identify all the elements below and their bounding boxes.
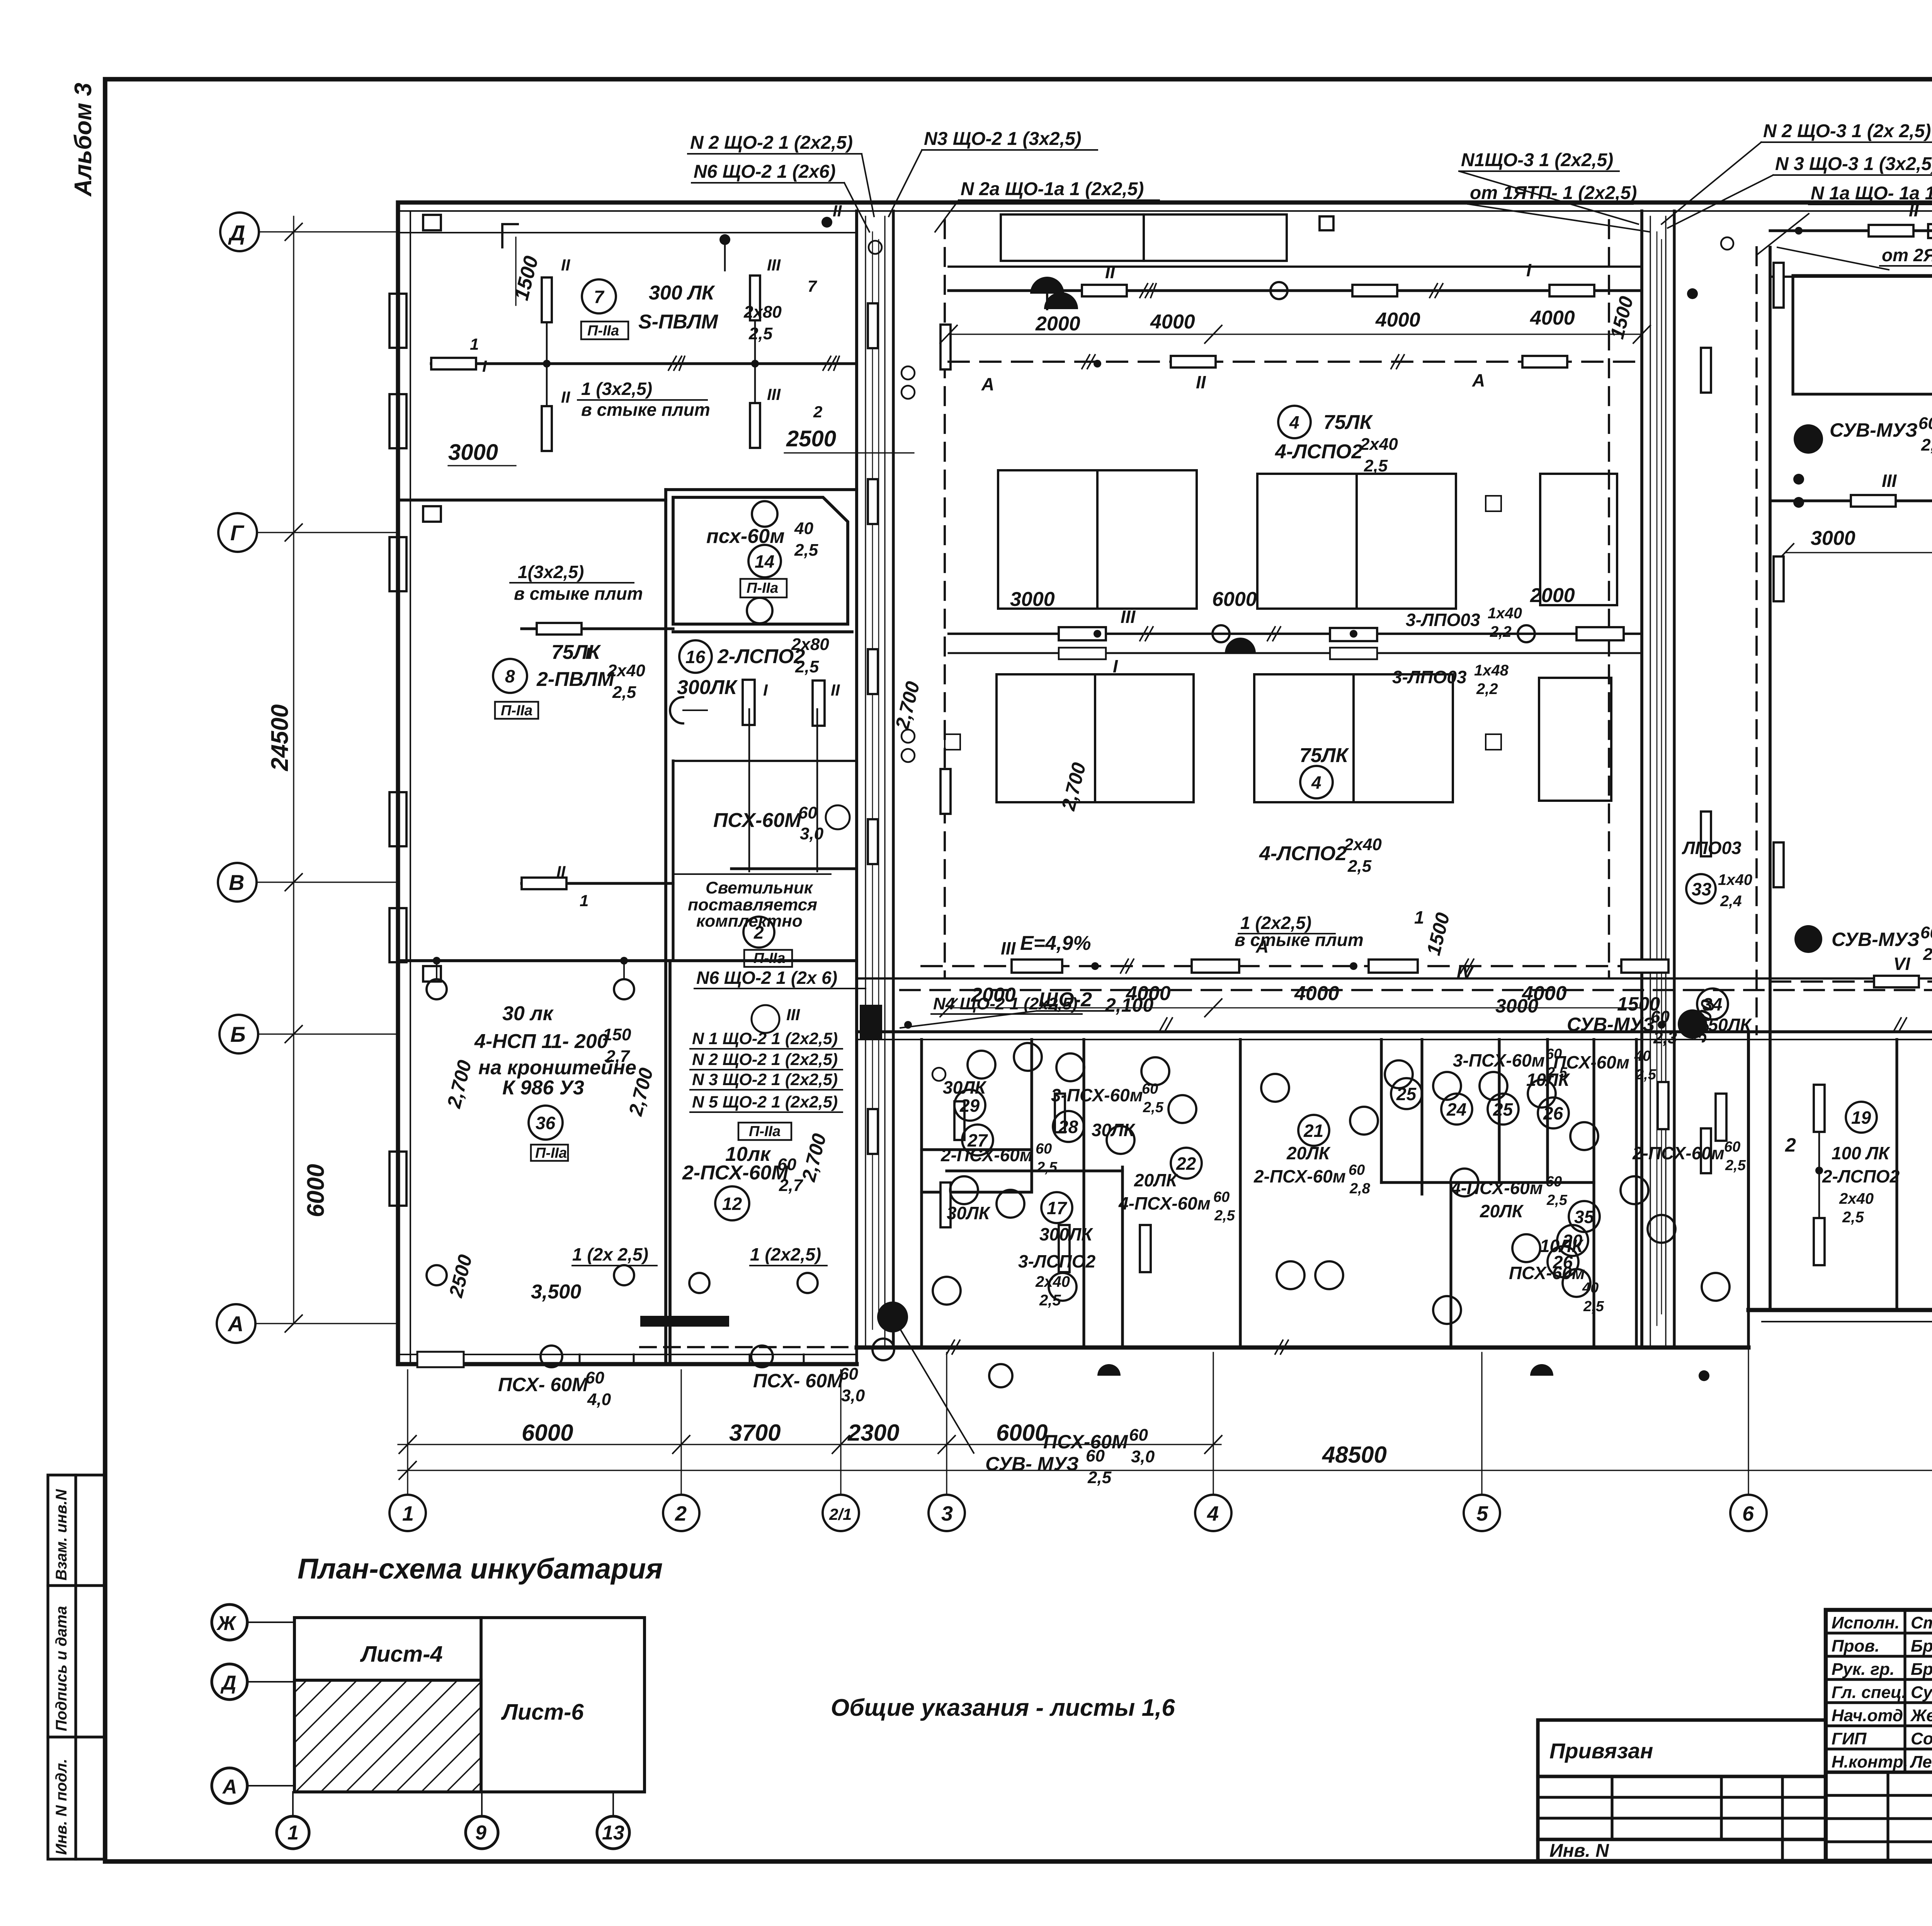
svg-text:Соколовский: Соколовский — [1911, 1729, 1932, 1748]
svg-text:40: 40 — [1634, 1048, 1651, 1064]
svg-text:3,0: 3,0 — [841, 1386, 865, 1405]
svg-text:Инв. N: Инв. N — [1549, 1841, 1609, 1861]
svg-text:П-IIа: П-IIа — [587, 323, 619, 339]
svg-text:ЛПО03: ЛПО03 — [1682, 838, 1742, 858]
svg-text:33: 33 — [1692, 879, 1712, 899]
corridor wiring dashed — [900, 989, 1932, 991]
partition vertical left block — [664, 490, 667, 1364]
svg-text:комплектно: комплектно — [696, 912, 803, 931]
svg-text:2,2: 2,2 — [1476, 681, 1498, 698]
svg-text:2,3: 2,3 — [1653, 1028, 1677, 1047]
svg-text:2: 2 — [675, 1502, 687, 1525]
svg-text:1х48: 1х48 — [1474, 662, 1509, 679]
svg-text:12: 12 — [722, 1194, 742, 1214]
svg-text:2,5: 2,5 — [1842, 1209, 1864, 1226]
axis bubble G — [218, 513, 257, 552]
svg-text:ПСХ-60м: ПСХ-60м — [1553, 1052, 1629, 1072]
corridor 2 luminaires — [1701, 263, 1784, 1173]
svg-text:2000: 2000 — [1530, 584, 1575, 607]
svg-text:60: 60 — [839, 1365, 858, 1383]
svg-text:III: III — [1121, 607, 1136, 627]
svg-text:N6 ЩО-2 1 (2х 6): N6 ЩО-2 1 (2х 6) — [696, 968, 837, 988]
bottom band wall at axis 6 — [1747, 1034, 1750, 1310]
key plan axis bubbles — [212, 1604, 629, 1849]
svg-text:СУВ- МУЗ: СУВ- МУЗ — [985, 1453, 1079, 1475]
svg-text:20ЛК: 20ЛК — [1134, 1170, 1178, 1190]
lamps bottom band (small rooms) — [933, 1043, 1730, 1324]
stamp column texts — [53, 1489, 70, 1855]
svg-text:60: 60 — [1349, 1162, 1365, 1178]
svg-text:40: 40 — [1582, 1280, 1599, 1296]
svg-text:2500: 2500 — [786, 426, 836, 451]
svg-text:3000: 3000 — [1495, 995, 1538, 1017]
svg-text:1(3х2,5): 1(3х2,5) — [518, 562, 584, 582]
svg-text:6000: 6000 — [522, 1420, 573, 1446]
svg-text:В: В — [229, 870, 244, 895]
black semicircle lamps — [1030, 277, 1064, 294]
big rooms right hall — [1793, 276, 1932, 394]
corridor 1 verticals — [857, 211, 893, 1348]
svg-text:II: II — [1105, 262, 1116, 282]
svg-text:36: 36 — [536, 1113, 556, 1133]
svg-text:2,5: 2,5 — [1635, 1067, 1656, 1083]
wire group room 8/16 — [522, 627, 673, 630]
svg-text:2,8: 2,8 — [1349, 1181, 1371, 1197]
svg-text:I: I — [482, 357, 487, 375]
svg-text:1: 1 — [287, 1822, 299, 1844]
luminaire II lower — [542, 406, 552, 451]
group III wire right hall — [1770, 499, 1932, 502]
svg-text:60: 60 — [798, 803, 817, 822]
bottom dimension row 1 — [398, 1444, 1221, 1445]
svg-text:4000: 4000 — [1530, 307, 1575, 329]
bottom axis bubbles — [389, 1495, 1932, 1531]
svg-text:4-ПСХ-60м: 4-ПСХ-60м — [1451, 1178, 1543, 1198]
svg-text:2,100: 2,100 — [1105, 994, 1153, 1016]
SUV-MUZ labels — [985, 414, 1932, 1487]
luminaire III room7 — [750, 276, 760, 320]
bottom wall central — [857, 1346, 1748, 1350]
svg-text:II: II — [556, 863, 566, 881]
svg-text:N6 ЩО-2 1 (2х6): N6 ЩО-2 1 (2х6) — [694, 162, 836, 182]
svg-text:17: 17 — [1047, 1198, 1068, 1218]
riser dashed line corridor 1 — [944, 220, 946, 978]
ShchO-2 panel black — [860, 1005, 882, 1040]
hall mid wire — [949, 633, 1642, 635]
svg-text:ПСХ-60М: ПСХ-60М — [713, 809, 802, 832]
dashed wire top — [949, 361, 1642, 363]
svg-text:2х80: 2х80 — [743, 303, 782, 322]
luminaire III lower — [750, 403, 760, 448]
underline leaders — [578, 399, 707, 401]
building outer top wall — [398, 202, 1932, 1364]
svg-text:1 (3х2,5): 1 (3х2,5) — [581, 379, 652, 399]
left stamp column — [48, 1475, 105, 1859]
svg-text:16: 16 — [685, 647, 706, 667]
left outer wall — [396, 202, 400, 1364]
group I labels row 1 — [981, 260, 1532, 982]
svg-text:2,5: 2,5 — [794, 541, 818, 560]
top band rooms central — [1001, 214, 1932, 261]
svg-text:19: 19 — [1851, 1108, 1871, 1128]
dim 1500 tick line — [515, 237, 516, 305]
svg-text:40: 40 — [794, 519, 813, 538]
axis bubble V — [218, 863, 257, 902]
svg-text:1: 1 — [402, 1502, 414, 1525]
top wire right — [1770, 229, 1932, 232]
east-west corridor walls — [857, 978, 1932, 1040]
leader slant lines — [844, 142, 1932, 270]
central hall right wall / corridor 2 — [1642, 211, 1674, 1348]
svg-text:2: 2 — [813, 403, 822, 421]
svg-text:75ЛК: 75ЛК — [1299, 744, 1349, 767]
svg-text:29: 29 — [959, 1096, 980, 1116]
svg-text:4-НСП 11- 200: 4-НСП 11- 200 — [474, 1030, 608, 1053]
corridor2 small bells — [1687, 237, 1804, 508]
svg-text:13: 13 — [602, 1822, 624, 1844]
svg-text:2,5: 2,5 — [1087, 1468, 1112, 1487]
svg-text:П-IIа: П-IIа — [749, 1123, 781, 1140]
axis bubble B — [219, 1015, 258, 1053]
svg-text:III: III — [1882, 471, 1897, 491]
svg-text:от 1ЯТП- 1 (2х2,5): от 1ЯТП- 1 (2х2,5) — [1470, 183, 1637, 203]
luminaire II room7 — [542, 277, 552, 322]
svg-text:150: 150 — [603, 1025, 631, 1044]
svg-text:2,5: 2,5 — [1347, 857, 1372, 876]
switch symbols top-left room — [502, 224, 518, 247]
svg-text:35: 35 — [1574, 1207, 1595, 1227]
svg-text:ЩО-2: ЩО-2 — [1039, 989, 1092, 1011]
axis bubble A — [217, 1304, 255, 1343]
svg-text:3-ЛПО03: 3-ЛПО03 — [1392, 667, 1467, 687]
svg-text:48500: 48500 — [1322, 1442, 1387, 1468]
lamps below bottom wall — [541, 1339, 894, 1367]
A-strip jambs — [417, 1352, 804, 1367]
svg-text:III: III — [786, 1006, 800, 1024]
svg-text:3-ПСХ-60м: 3-ПСХ-60м — [1453, 1050, 1545, 1070]
svg-text:1: 1 — [580, 892, 588, 910]
room 36 lamps — [427, 961, 634, 1285]
bubble stems — [408, 1329, 1932, 1495]
wire group room 7 — [431, 362, 857, 365]
svg-text:Исполн.: Исполн. — [1832, 1613, 1900, 1632]
svg-text:2х40: 2х40 — [1035, 1273, 1070, 1290]
lobby walls — [731, 867, 857, 870]
svg-text:ПСХ- 60М: ПСХ- 60М — [753, 1370, 844, 1392]
central top band partition — [949, 265, 1642, 268]
svg-text:26: 26 — [1543, 1103, 1563, 1123]
svg-text:3,0: 3,0 — [1131, 1447, 1155, 1466]
svg-text:3,500: 3,500 — [531, 1281, 581, 1303]
axis D — [217, 213, 398, 1343]
riser dashed corridor 2 left — [1608, 220, 1610, 978]
bottom wall right — [1748, 1308, 1932, 1312]
svg-text:N 2 ЩО-2 1 (2х2,5): N 2 ЩО-2 1 (2х2,5) — [692, 1050, 838, 1069]
svg-text:А: А — [222, 1776, 237, 1798]
svg-text:6: 6 — [1742, 1502, 1754, 1525]
svg-text:N 1а ЩО- 1а 1 (2х2,5): N 1а ЩО- 1а 1 (2х2,5) — [1811, 183, 1932, 204]
svg-text:3000: 3000 — [448, 440, 498, 465]
svg-text:2х80: 2х80 — [791, 635, 829, 654]
svg-text:2,2: 2,2 — [1490, 623, 1512, 640]
axis ticks on 24500 line — [285, 223, 302, 1332]
svg-text:2,5: 2,5 — [612, 683, 636, 702]
svg-text:2-ПСХ-60м: 2-ПСХ-60м — [1632, 1143, 1725, 1163]
svg-text:7: 7 — [808, 277, 817, 295]
room36 texts — [474, 1002, 821, 1303]
luminaire bracket room7 — [431, 358, 476, 369]
svg-text:Взам. инв.N: Взам. инв.N — [53, 1489, 70, 1581]
svg-text:4: 4 — [1289, 412, 1299, 432]
dims texts left block — [448, 426, 836, 465]
svg-text:25: 25 — [1396, 1084, 1417, 1104]
svg-text:К 986 У3: К 986 У3 — [502, 1077, 584, 1099]
svg-text:2х40: 2х40 — [1344, 835, 1382, 854]
svg-text:1х40: 1х40 — [1718, 871, 1752, 888]
svg-text:N 3 ЩО-3 1 (3х2,5): N 3 ЩО-3 1 (3х2,5) — [1775, 154, 1932, 174]
svg-text:60: 60 — [1918, 414, 1932, 433]
svg-text:6000: 6000 — [996, 1420, 1048, 1446]
svg-text:60: 60 — [1036, 1141, 1052, 1157]
svg-text:14: 14 — [755, 551, 774, 572]
svg-text:60: 60 — [1724, 1139, 1740, 1155]
SUV-MUZ black circles — [1794, 424, 1823, 454]
svg-text:Подпись и дата: Подпись и дата — [53, 1606, 70, 1731]
svg-text:псх-60м: псх-60м — [706, 525, 785, 548]
left axis dim line — [293, 216, 294, 1324]
svg-text:План-схема инкубатария: План-схема инкубатария — [298, 1553, 663, 1585]
svg-text:N 1 ЩО-2 1 (2х2,5): N 1 ЩО-2 1 (2х2,5) — [692, 1029, 838, 1048]
svg-text:N 2 ЩО-3 1 (2х 2,5): N 2 ЩО-3 1 (2х 2,5) — [1763, 121, 1931, 141]
svg-text:30ЛК: 30ЛК — [947, 1203, 991, 1223]
svg-text:S-ПВЛМ: S-ПВЛМ — [638, 311, 719, 333]
svg-text:22: 22 — [1176, 1154, 1196, 1174]
svg-text:ПСХ- 60М: ПСХ- 60М — [498, 1374, 588, 1395]
divider 36/12 — [668, 961, 672, 1364]
svg-text:N 3 ЩО-2 1 (2х2,5): N 3 ЩО-2 1 (2х2,5) — [692, 1070, 838, 1089]
svg-text:Ж: Ж — [216, 1612, 237, 1635]
svg-text:2,5: 2,5 — [795, 657, 819, 676]
svg-text:Лебская: Лебская — [1910, 1752, 1932, 1771]
svg-text:2,5: 2,5 — [748, 324, 773, 343]
svg-text:ПСХ-60М: ПСХ-60М — [1043, 1431, 1128, 1453]
left block internal walls — [398, 490, 857, 1364]
svg-text:60: 60 — [1546, 1174, 1562, 1190]
svg-text:75ЛК: 75ЛК — [551, 641, 601, 664]
svg-text:300 ЛК: 300 ЛК — [649, 282, 715, 304]
PSХ labels below — [498, 1365, 1155, 1466]
svg-text:II: II — [831, 681, 840, 699]
svg-text:60: 60 — [1129, 1426, 1148, 1444]
svg-text:30 лк: 30 лк — [502, 1002, 554, 1025]
dashed wire below A — [640, 1346, 920, 1348]
svg-text:24500: 24500 — [267, 704, 293, 771]
svg-text:А: А — [981, 374, 994, 394]
svg-text:2х40: 2х40 — [1360, 435, 1398, 454]
svetilnik note — [688, 878, 817, 931]
svg-text:2/1: 2/1 — [829, 1505, 852, 1523]
svg-text:Г: Г — [230, 521, 245, 545]
svg-text:N 5 ЩО-2 1 (2х2,5): N 5 ЩО-2 1 (2х2,5) — [692, 1093, 838, 1111]
luminaires room16 — [743, 680, 755, 725]
svg-text:2-ПСХ-60м: 2-ПСХ-60м — [940, 1145, 1033, 1165]
bottom room band partitions — [922, 1040, 1932, 1348]
svg-text:2,5: 2,5 — [1364, 456, 1388, 475]
room16 bell — [670, 697, 683, 723]
svg-text:2,5: 2,5 — [1583, 1298, 1604, 1315]
svg-text:N3 ЩО-2 1 (3х2,5): N3 ЩО-2 1 (3х2,5) — [924, 129, 1082, 149]
svg-text:60: 60 — [585, 1368, 604, 1387]
svg-text:I: I — [763, 681, 768, 699]
svg-text:3-ЛСПО2: 3-ЛСПО2 — [1018, 1251, 1096, 1271]
svg-text:Жевнеров: Жевнеров — [1910, 1706, 1932, 1725]
dashed wire bottom right hall — [1770, 980, 1932, 983]
svg-text:3-ПСХ-60м: 3-ПСХ-60м — [1051, 1085, 1143, 1105]
small squares between rects — [1486, 496, 1501, 511]
svg-text:2х40: 2х40 — [607, 661, 645, 680]
svg-text:2,5: 2,5 — [1921, 436, 1932, 454]
room 12 lamps — [689, 1273, 818, 1293]
svg-text:ГИП: ГИП — [1832, 1729, 1867, 1748]
lamp stem — [546, 322, 548, 406]
top band wire — [949, 289, 1642, 292]
lamp dots room7 top — [719, 234, 730, 245]
svg-text:ПСХ-60м: ПСХ-60м — [1509, 1263, 1585, 1283]
wire axis B — [522, 882, 673, 885]
wire slashes — [668, 356, 839, 370]
svg-text:1х40: 1х40 — [1488, 605, 1522, 622]
svg-text:24: 24 — [1446, 1099, 1466, 1120]
svg-text:N1ЩО-3 1 (2х2,5): N1ЩО-3 1 (2х2,5) — [1461, 150, 1613, 170]
svg-text:Светильник: Светильник — [706, 878, 814, 897]
svg-text:3000: 3000 — [1811, 527, 1855, 550]
svg-text:2,4: 2,4 — [1720, 893, 1742, 910]
svg-text:I: I — [1526, 260, 1532, 280]
svg-text:2-ПСХ-60м: 2-ПСХ-60м — [1253, 1166, 1346, 1186]
svg-text:1: 1 — [470, 335, 479, 353]
luminaires room17 area — [954, 1082, 1726, 1272]
svg-text:60: 60 — [1213, 1189, 1230, 1205]
svg-text:1: 1 — [1414, 907, 1424, 927]
svg-text:СУВ-МУЗ: СУВ-МУЗ — [1567, 1014, 1655, 1035]
svg-text:3-ЛПО03: 3-ЛПО03 — [1406, 610, 1480, 630]
svg-text:75ЛК: 75ЛК — [1323, 411, 1373, 434]
dim line right hall — [1785, 552, 1932, 553]
svg-text:П-IIа: П-IIа — [501, 703, 532, 719]
svg-text:4-ЛСПО2: 4-ЛСПО2 — [1259, 842, 1347, 865]
P-IIa boxes — [495, 322, 792, 1161]
svg-text:Брюм: Брюм — [1911, 1660, 1932, 1679]
dashed wire bottom of hall — [922, 965, 1642, 967]
svg-text:1500: 1500 — [1617, 993, 1660, 1015]
svg-text:100 ЛК: 100 ЛК — [1832, 1143, 1890, 1163]
svg-text:Нач.отд.: Нач.отд. — [1832, 1706, 1908, 1725]
svg-text:60: 60 — [1142, 1081, 1158, 1097]
dim line bottom hall — [949, 1007, 1642, 1009]
svg-text:Супрунова: Супрунова — [1911, 1683, 1932, 1702]
svg-text:2х40: 2х40 — [1839, 1190, 1874, 1207]
svg-text:4: 4 — [1311, 772, 1321, 793]
svg-text:150ЛК: 150ЛК — [1698, 1015, 1752, 1035]
svg-text:60: 60 — [777, 1155, 796, 1174]
svg-text:10ЛК: 10ЛК — [1540, 1236, 1584, 1256]
svg-text:II: II — [1196, 372, 1206, 392]
svg-text:4,0: 4,0 — [587, 1390, 611, 1409]
thick thresholds at left block bottom — [640, 1316, 729, 1327]
room19 luminaires — [1814, 1085, 1932, 1265]
svg-text:Альбом 3: Альбом 3 — [70, 83, 97, 197]
privyazan block — [1538, 1720, 1826, 1861]
svg-text:2,5: 2,5 — [1214, 1208, 1235, 1224]
svg-text:2,7: 2,7 — [779, 1176, 804, 1195]
svg-text:3: 3 — [941, 1502, 953, 1525]
right hall left wall — [1769, 247, 1772, 1310]
svg-text:Е=4,9%: Е=4,9% — [1020, 932, 1091, 954]
svg-text:на кронштейне: на кронштейне — [478, 1057, 636, 1079]
svg-text:Лист-4: Лист-4 — [360, 1642, 443, 1667]
svg-text:VI: VI — [1893, 954, 1911, 974]
svg-text:2-ЛСПО2: 2-ЛСПО2 — [1822, 1166, 1900, 1186]
room 14 box — [673, 497, 848, 624]
svg-text:4-ЛСПО2: 4-ЛСПО2 — [1275, 441, 1362, 463]
svg-text:N 2а ЩО-1а 1 (2х2,5): N 2а ЩО-1а 1 (2х2,5) — [961, 179, 1144, 199]
svg-text:1 (2х 2,5): 1 (2х 2,5) — [572, 1244, 648, 1264]
svg-text:П-IIа: П-IIа — [747, 580, 778, 596]
svg-text:7: 7 — [594, 287, 605, 307]
incubator rectangles central row A — [998, 470, 1617, 609]
riser dashed right block — [1755, 247, 1758, 1034]
svg-text:8: 8 — [505, 666, 515, 686]
svg-text:А: А — [1472, 370, 1485, 390]
svg-text:20ЛК: 20ЛК — [1480, 1201, 1524, 1221]
svg-text:Общие указания - листы 1,6: Общие указания - листы 1,6 — [831, 1695, 1175, 1721]
svg-text:30ЛК: 30ЛК — [943, 1077, 987, 1097]
svg-text:Гл. спец.: Гл. спец. — [1832, 1683, 1906, 1702]
svg-text:2,5: 2,5 — [1036, 1159, 1058, 1176]
svg-text:Д: Д — [228, 221, 245, 245]
svg-text:Д: Д — [220, 1672, 236, 1694]
svg-text:в стыке плит: в стыке плит — [514, 584, 643, 604]
svg-text:Привязан: Привязан — [1549, 1739, 1653, 1763]
svg-text:2-ПСХ-60М: 2-ПСХ-60М — [682, 1162, 789, 1184]
svg-text:1 (2х2,5): 1 (2х2,5) — [750, 1244, 821, 1264]
svg-text:2000: 2000 — [1035, 313, 1080, 335]
svg-text:4000: 4000 — [1150, 311, 1195, 333]
key plan — [294, 1618, 645, 1792]
svg-text:21: 21 — [1303, 1121, 1323, 1141]
svg-text:А: А — [227, 1312, 243, 1336]
group labels right hall — [1882, 198, 1932, 974]
svg-text:6000: 6000 — [1212, 588, 1257, 611]
svg-text:N 2 ЩО-2 1 (2х2,5): N 2 ЩО-2 1 (2х2,5) — [690, 133, 853, 153]
svg-text:III: III — [767, 256, 781, 274]
svg-text:III: III — [767, 385, 781, 403]
svg-text:2,5: 2,5 — [1143, 1099, 1164, 1116]
partition room7 bottom — [398, 499, 666, 502]
svg-text:Рук. гр.: Рук. гр. — [1832, 1660, 1895, 1679]
svg-text:4000: 4000 — [1375, 309, 1420, 331]
svg-text:20ЛК: 20ЛК — [1286, 1143, 1331, 1163]
left block top inner line — [398, 232, 857, 233]
wire slash tick marks — [947, 284, 1932, 1354]
svg-text:2-ПВЛМ: 2-ПВЛМ — [536, 668, 615, 691]
svg-text:5: 5 — [1476, 1502, 1488, 1525]
svg-text:I: I — [1113, 656, 1118, 676]
incubator rectangles central row B — [997, 674, 1611, 802]
svg-text:СУВ-МУЗ: СУВ-МУЗ — [1830, 419, 1918, 441]
svg-text:2000: 2000 — [971, 984, 1016, 1006]
svg-text:I: I — [585, 644, 590, 662]
